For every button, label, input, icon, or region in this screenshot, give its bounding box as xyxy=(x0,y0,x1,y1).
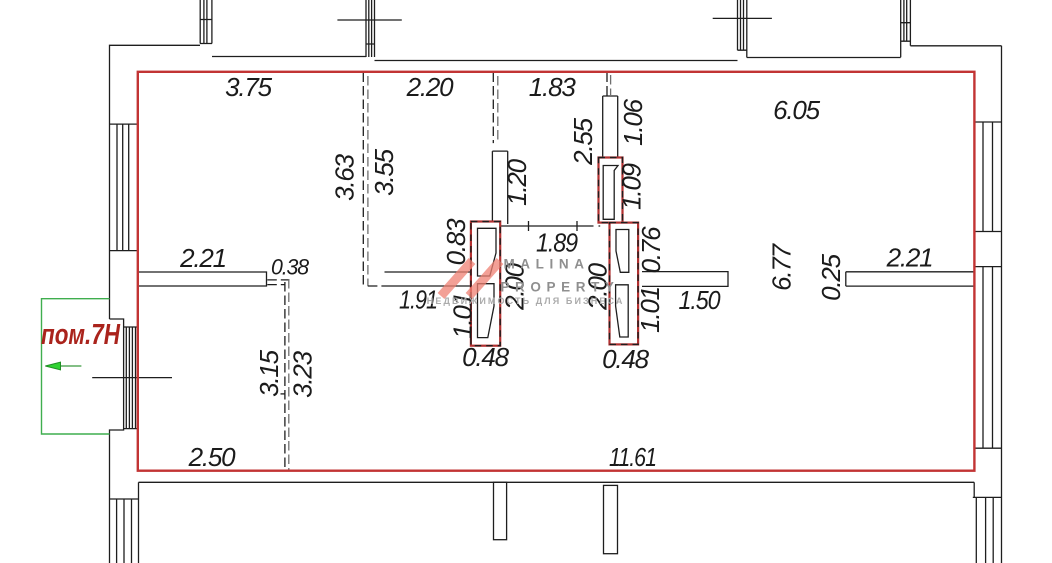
lower pilaster 2 xyxy=(604,485,618,553)
lower-left window xyxy=(110,499,139,563)
door leaf F2 lower xyxy=(616,285,629,337)
lower pilaster 1 xyxy=(494,482,507,539)
svg-text:3.15: 3.15 xyxy=(254,349,284,397)
window right R3 lower xyxy=(973,497,1002,563)
svg-text:1.50: 1.50 xyxy=(679,285,722,315)
svg-text:6.05: 6.05 xyxy=(773,95,821,125)
svg-text:1.09: 1.09 xyxy=(617,163,647,210)
window right R2 xyxy=(974,267,1001,449)
svg-text:пом.7Н: пом.7Н xyxy=(41,319,121,351)
dashed partition 3.15/3.23 xyxy=(267,279,289,471)
svg-text:0.25: 0.25 xyxy=(816,253,846,301)
red room outline xyxy=(138,72,975,471)
wall right outer xyxy=(1001,46,1003,563)
wall top segment E xyxy=(747,57,901,59)
svg-text:3.63: 3.63 xyxy=(330,153,360,201)
svg-text:2.21: 2.21 xyxy=(179,243,226,273)
svg-text:0.48: 0.48 xyxy=(462,342,510,372)
wall top segment C xyxy=(212,56,366,58)
window strip D top xyxy=(901,0,911,57)
svg-text:1.01: 1.01 xyxy=(635,287,665,333)
interior wall band seg2 1.91 xyxy=(385,272,472,286)
svg-text:3.75: 3.75 xyxy=(225,72,273,102)
wall stub 1.06 xyxy=(603,96,618,158)
window strip B top xyxy=(337,0,401,57)
svg-text:3.55: 3.55 xyxy=(369,148,399,196)
wall left entrance recess xyxy=(110,319,124,563)
interior wall band seg4 2.21 right xyxy=(846,272,975,286)
interior wall band seg3 1.50 xyxy=(642,272,728,287)
svg-text:0.76: 0.76 xyxy=(636,226,666,274)
dimension line 1.89 xyxy=(494,221,587,231)
wall right lower step xyxy=(973,482,975,497)
svg-text:0.38: 0.38 xyxy=(271,255,310,280)
door frame F2 red box lower right xyxy=(610,223,639,345)
door leaf F1 lower xyxy=(478,284,495,338)
svg-text:2.55: 2.55 xyxy=(568,117,598,166)
door leaf F3 xyxy=(603,166,618,220)
svg-text:6.77: 6.77 xyxy=(767,242,797,291)
green room box xyxy=(42,299,110,434)
window strip A top xyxy=(200,0,212,44)
interior wall band seg1 2.21/0.38 xyxy=(138,272,267,286)
svg-text:1.89: 1.89 xyxy=(536,228,578,258)
wall top-left outer corner xyxy=(110,45,201,319)
lower building left wall xyxy=(138,482,140,563)
svg-text:1.06: 1.06 xyxy=(618,98,648,146)
wall top segment F xyxy=(910,45,1001,47)
svg-text:3.23: 3.23 xyxy=(288,350,318,398)
svg-text:2.21: 2.21 xyxy=(886,243,933,273)
svg-text:НЕДВИЖИМОСТЬ ДЛЯ БИЗНЕСА: НЕДВИЖИМОСТЬ ДЛЯ БИЗНЕСА xyxy=(427,296,625,306)
entrance door leaf xyxy=(124,327,138,429)
svg-text:0.48: 0.48 xyxy=(602,344,650,374)
svg-text:1.20: 1.20 xyxy=(502,158,532,206)
wall stub 1.20 xyxy=(492,151,507,224)
window right R1 xyxy=(974,122,1001,232)
door leaf F1 upper xyxy=(478,228,497,276)
svg-text:PROPERTY: PROPERTY xyxy=(500,280,619,295)
wall top segment D xyxy=(375,60,738,62)
svg-text:11.61: 11.61 xyxy=(609,442,656,472)
window strip C top xyxy=(713,0,772,58)
svg-text:1.83: 1.83 xyxy=(529,72,577,102)
watermark logo stripes xyxy=(441,261,500,296)
door leaf F2 upper xyxy=(616,230,629,273)
svg-text:2.50: 2.50 xyxy=(188,442,237,472)
window left L1 xyxy=(110,124,138,251)
lower building top wall xyxy=(139,481,975,483)
dashed partition top 1.83 left xyxy=(493,73,498,144)
svg-text:MALINA: MALINA xyxy=(503,257,589,272)
svg-text:2.20: 2.20 xyxy=(406,72,455,102)
partition tick xyxy=(281,393,286,395)
door frame F1 red box xyxy=(471,222,500,346)
green arrow xyxy=(45,362,81,370)
svg-text:0.83: 0.83 xyxy=(441,218,471,266)
dashed partition top 1.06 xyxy=(607,73,611,97)
dashed partition 3.63/3.55 xyxy=(363,73,384,287)
door frame F3 red box upper right xyxy=(599,158,623,223)
entrance door axis line xyxy=(92,377,172,379)
